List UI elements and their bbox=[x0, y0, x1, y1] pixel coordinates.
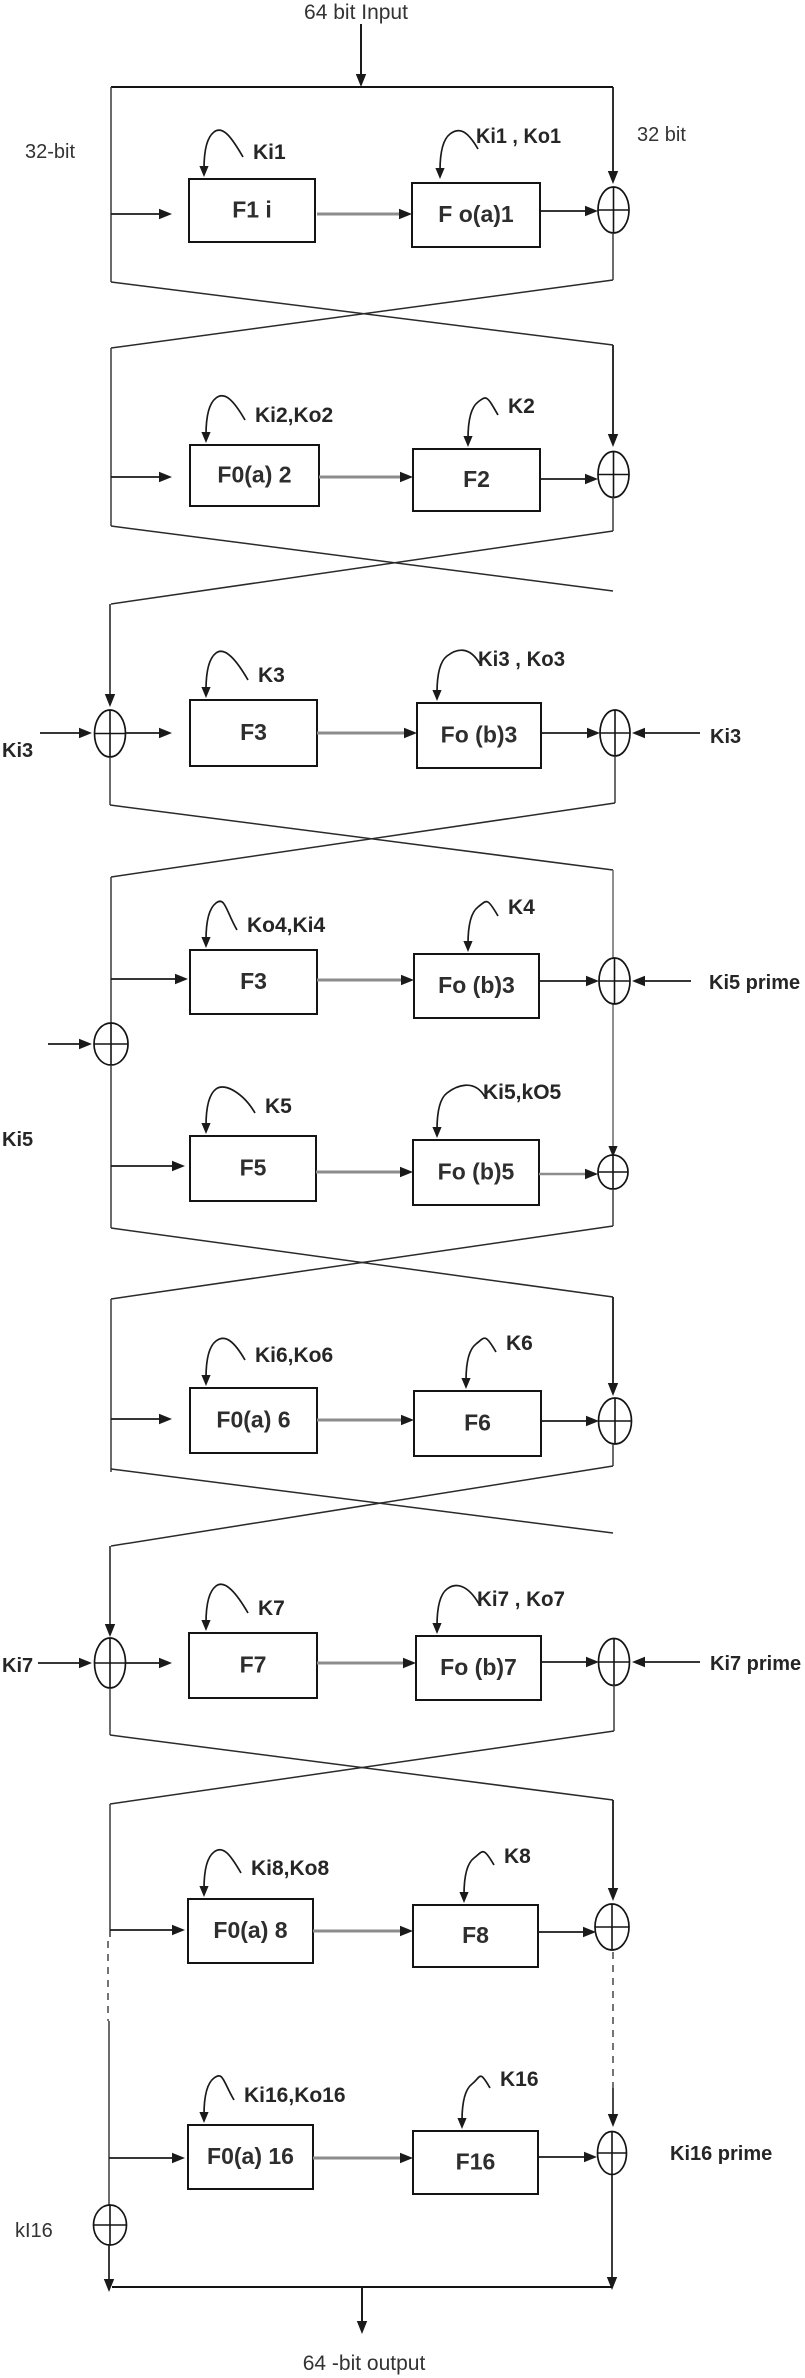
block F2 bbox=[413, 449, 540, 511]
wire arrow F6 to XOR6 bbox=[541, 1416, 599, 1426]
svg-text:F o(a)1: F o(a)1 bbox=[438, 201, 514, 227]
svg-text:Ki5: Ki5 bbox=[2, 1129, 33, 1151]
svg-text:F3: F3 bbox=[240, 968, 267, 994]
wire round16 left vertical bbox=[108, 2021, 110, 2205]
key hook K5 bbox=[201, 1087, 255, 1134]
xor X45L bbox=[94, 1023, 128, 1065]
wire crossover1 left-to-right bbox=[111, 282, 613, 345]
block F1i bbox=[189, 179, 315, 242]
wire round8 arrow into F0(a)8 bbox=[110, 1925, 185, 1935]
wire round2 right vertical arrow into XOR bbox=[608, 345, 618, 447]
svg-text:Fo (b)3: Fo (b)3 bbox=[441, 722, 518, 748]
key hook Ki1,Ko1 bbox=[435, 131, 478, 179]
svg-text:64 bit Input: 64 bit Input bbox=[304, 1, 408, 24]
svg-text:Fo (b)7: Fo (b)7 bbox=[440, 1654, 517, 1680]
key hook Ki7,Ko7 bbox=[432, 1586, 479, 1634]
svg-text:32 bit: 32 bit bbox=[637, 124, 686, 146]
wire below X3L bbox=[109, 757, 111, 805]
wire crossover5 left-to-right bbox=[111, 1469, 613, 1533]
wire crossover3 left-to-right bbox=[110, 805, 613, 870]
wire gray arrow F0(a)6 to F6 bbox=[317, 1415, 414, 1425]
wire arrow Ki5prime into XOR4R bbox=[632, 976, 691, 986]
block Fo(a)1 bbox=[412, 183, 540, 247]
wire round45 left vertical lower bbox=[110, 1065, 112, 1228]
wire gray arrow F0(a)2 to F2 bbox=[319, 472, 413, 482]
svg-text:Ki5 prime: Ki5 prime bbox=[709, 972, 800, 994]
svg-text:Ki16 prime: Ki16 prime bbox=[670, 2143, 772, 2165]
svg-text:Fo (b)3: Fo (b)3 bbox=[438, 972, 515, 998]
svg-text:K2: K2 bbox=[508, 395, 535, 418]
wire below X3R bbox=[614, 756, 616, 803]
wire arrow Fo(a)1 to XOR1 bbox=[540, 206, 598, 216]
xor X16L bbox=[94, 2205, 127, 2245]
svg-text:K7: K7 bbox=[258, 1597, 285, 1620]
svg-text:Ko4,Ki4: Ko4,Ki4 bbox=[247, 914, 326, 937]
svg-text:Ki2,Ko2: Ki2,Ko2 bbox=[255, 404, 333, 427]
wire arrow Ki3-left into XOR3L bbox=[40, 728, 92, 738]
wire output arrow bbox=[357, 2287, 367, 2334]
wire crossover1 right-to-left bbox=[111, 280, 613, 348]
svg-text:32-bit: 32-bit bbox=[25, 141, 75, 163]
block F0(a)6 bbox=[190, 1388, 317, 1453]
xor X8 bbox=[595, 1904, 629, 1950]
svg-text:Ki7: Ki7 bbox=[2, 1655, 33, 1677]
svg-text:Ki16,Ko16: Ki16,Ko16 bbox=[244, 2084, 346, 2107]
wire arrow Fo(b)3 to XOR4R bbox=[539, 976, 599, 986]
wire round1 arrow into F1i bbox=[111, 209, 172, 219]
wire dashed left between rounds bbox=[107, 1941, 109, 2021]
block F0(a)2 bbox=[190, 445, 319, 506]
svg-text:Ki3 , Ko3: Ki3 , Ko3 bbox=[478, 648, 565, 671]
block F8 bbox=[413, 1905, 538, 1967]
block Fo(b)7 bbox=[416, 1636, 541, 1700]
svg-text:F2: F2 bbox=[463, 466, 490, 492]
svg-text:F5: F5 bbox=[240, 1155, 267, 1181]
key hook K16 bbox=[457, 2076, 490, 2129]
svg-text:64 -bit output: 64 -bit output bbox=[303, 2352, 426, 2375]
wire gray arrow F0(a)16 to F16 bbox=[313, 2153, 413, 2163]
wire gray arrow F1i to Fo(a)1 bbox=[317, 209, 412, 219]
wire below X2 bbox=[612, 497, 614, 531]
wire below X16R arrow to bottom bbox=[607, 2175, 617, 2290]
svg-text:kI16: kI16 bbox=[15, 2220, 53, 2242]
svg-text:F8: F8 bbox=[462, 1922, 489, 1948]
xor X2 bbox=[598, 452, 629, 498]
key hook Ko4,Ki4 bbox=[201, 901, 237, 948]
wire dashed right between rounds bbox=[612, 1952, 614, 2088]
svg-text:F7: F7 bbox=[240, 1652, 267, 1678]
xor X3L bbox=[95, 710, 126, 757]
wire gray arrow F5 to Fo(b)5 bbox=[316, 1167, 413, 1177]
svg-text:Ki8,Ko8: Ki8,Ko8 bbox=[251, 1857, 330, 1880]
svg-text:Fo (b)5: Fo (b)5 bbox=[438, 1159, 515, 1185]
svg-text:K5: K5 bbox=[265, 1095, 292, 1118]
wire round1 right vertical arrow into XOR bbox=[608, 87, 618, 184]
wire bottom horizontal bbox=[112, 2286, 612, 2288]
wire arrow Ki7-left into XOR7L bbox=[38, 1658, 92, 1668]
svg-text:F0(a) 16: F0(a) 16 bbox=[207, 2143, 294, 2169]
svg-text:K3: K3 bbox=[258, 664, 285, 687]
wire crossover5 right-to-left bbox=[111, 1466, 613, 1546]
block F0(a)8 bbox=[188, 1899, 313, 1963]
wire crossover6 right-to-left bbox=[110, 1731, 614, 1804]
wire round5 arrow into F5 bbox=[111, 1161, 185, 1171]
wire round4 arrow into F3 bbox=[111, 974, 188, 984]
block F7 bbox=[189, 1633, 317, 1698]
wire gray arrow F3 to Fo(b)3 bbox=[317, 728, 417, 738]
wire arrow Fo(b)3 to XOR3R bbox=[541, 728, 600, 738]
xor X3R bbox=[600, 710, 630, 756]
key hook Ki5,kO5 bbox=[432, 1085, 485, 1138]
svg-text:F16: F16 bbox=[456, 2149, 496, 2175]
xor X7L bbox=[95, 1638, 126, 1688]
wire left bottom arrow bbox=[104, 2244, 114, 2292]
wire round8 left vertical bbox=[109, 1804, 111, 1937]
block Fo(b)3 round4 bbox=[414, 954, 539, 1018]
xor X7R bbox=[599, 1639, 630, 1686]
key hook K6 bbox=[461, 1338, 496, 1389]
wire arrow F8 to XOR8 bbox=[538, 1927, 596, 1937]
wire crossover2 right-to-left bbox=[111, 531, 613, 604]
svg-text:K16: K16 bbox=[500, 2068, 539, 2091]
wire arrow Fo(b)7 to XOR7R bbox=[541, 1657, 599, 1667]
svg-text:K8: K8 bbox=[504, 1845, 531, 1868]
wire arrow into XOR45L bbox=[48, 1039, 92, 1049]
wire arrow F16 to XOR16R bbox=[538, 2152, 597, 2162]
wire gray arrow F0(a)8 to F8 bbox=[313, 1926, 413, 1936]
wire gray arrow F3 to Fo(b)3 round4 bbox=[317, 975, 414, 985]
wire below X7R bbox=[613, 1685, 615, 1731]
wire arrow Ki7prime into XOR7R bbox=[632, 1657, 700, 1667]
xor X16R bbox=[598, 2132, 627, 2175]
wire top horizontal bbox=[111, 86, 613, 88]
wire arrow Ki3-right into XOR3R bbox=[632, 728, 700, 738]
xor X6 bbox=[599, 1398, 632, 1444]
wire below X5R bbox=[612, 1189, 614, 1226]
wire arrow F2 to XOR2 bbox=[540, 474, 598, 484]
key hook Ki2,Ko2 bbox=[201, 396, 245, 443]
block F0(a)16 bbox=[188, 2125, 313, 2189]
svg-text:F6: F6 bbox=[464, 1410, 491, 1436]
xor X5R bbox=[598, 1155, 628, 1189]
wire crossover4 left-to-right bbox=[111, 1228, 613, 1297]
wire round8 right vertical arrow into XOR bbox=[608, 1800, 618, 1901]
wire crossover6 left-to-right bbox=[110, 1735, 613, 1800]
wire below X7L bbox=[109, 1688, 111, 1735]
wire round6 arrow into F0(a)6 bbox=[111, 1414, 172, 1424]
key hook Ki3,Ko3 bbox=[432, 650, 480, 701]
wire input arrow bbox=[356, 24, 366, 87]
wire gray arrow Fo(b)5 to XOR5R bbox=[539, 1169, 598, 1179]
wire round7 left vertical arrow into XOR7L bbox=[105, 1546, 115, 1637]
key hook Ki6,Ko6 bbox=[201, 1338, 245, 1386]
wire arrow XOR3L to F3 bbox=[126, 728, 172, 738]
key hook K8 bbox=[459, 1852, 494, 1903]
svg-text:F0(a) 6: F0(a) 6 bbox=[216, 1407, 290, 1433]
wire below X1 bbox=[612, 233, 614, 280]
svg-text:Ki7 prime: Ki7 prime bbox=[710, 1653, 801, 1675]
wire round45 right vertical long bbox=[612, 870, 614, 1150]
svg-text:Ki5,kO5: Ki5,kO5 bbox=[483, 1081, 562, 1104]
wire arrow down into XOR5R bbox=[608, 1146, 617, 1157]
wire gray arrow F7 to Fo(b)7 bbox=[317, 1658, 416, 1668]
svg-text:Ki7 , Ko7: Ki7 , Ko7 bbox=[477, 1588, 565, 1611]
block F3 round3 bbox=[190, 700, 317, 766]
block F16 bbox=[413, 2131, 538, 2194]
block F6 bbox=[414, 1391, 541, 1456]
wire round45 left vertical upper bbox=[110, 877, 112, 1024]
svg-text:F0(a) 8: F0(a) 8 bbox=[213, 1917, 287, 1943]
key hook Ki1 bbox=[199, 130, 243, 177]
wire round3 left vertical arrow into XOR3L bbox=[105, 604, 115, 707]
key hook K4 bbox=[463, 902, 498, 952]
wire round6 right vertical arrow into XOR bbox=[608, 1297, 618, 1396]
wire round6 left vertical bbox=[110, 1299, 112, 1472]
wire round2 arrow into F0(a)2 bbox=[111, 472, 172, 482]
svg-text:F1 i: F1 i bbox=[232, 197, 272, 223]
wire round16 right vertical arrow into XOR bbox=[608, 2088, 618, 2127]
xor X1 bbox=[598, 187, 629, 233]
wire round1 left vertical bbox=[110, 87, 112, 282]
svg-text:Ki3: Ki3 bbox=[2, 740, 33, 762]
block F5 bbox=[190, 1136, 316, 1201]
block Fo(b)3 round3 bbox=[417, 703, 541, 768]
wire crossover4 right-to-left bbox=[111, 1226, 613, 1299]
wire round2 left vertical bbox=[110, 348, 112, 526]
svg-text:Ki6,Ko6: Ki6,Ko6 bbox=[255, 1344, 333, 1367]
xor X4R bbox=[599, 958, 630, 1004]
svg-text:K4: K4 bbox=[508, 896, 535, 919]
block Fo(b)5 bbox=[413, 1140, 539, 1205]
wire crossover3 right-to-left bbox=[111, 803, 615, 877]
svg-text:Ki1 , Ko1: Ki1 , Ko1 bbox=[476, 125, 561, 148]
svg-text:Ki3: Ki3 bbox=[710, 726, 741, 748]
svg-text:Ki1: Ki1 bbox=[253, 141, 286, 164]
key hook K2 bbox=[463, 398, 498, 447]
wire round16 arrow into F0(a)16 bbox=[109, 2153, 185, 2163]
svg-text:F0(a) 2: F0(a) 2 bbox=[217, 462, 291, 488]
key hook K3 bbox=[201, 651, 248, 698]
block F3 round4 bbox=[190, 950, 317, 1014]
wire crossover2 left-to-right bbox=[111, 526, 613, 591]
key hook Ki8,Ko8 bbox=[199, 1850, 241, 1897]
key hook K7 bbox=[201, 1584, 248, 1631]
wire arrow XOR7L to F7 bbox=[126, 1658, 172, 1668]
wire below X6 bbox=[612, 1444, 614, 1466]
svg-text:F3: F3 bbox=[240, 719, 267, 745]
key hook Ki16,Ko16 bbox=[199, 2076, 234, 2123]
svg-text:K6: K6 bbox=[506, 1332, 533, 1355]
